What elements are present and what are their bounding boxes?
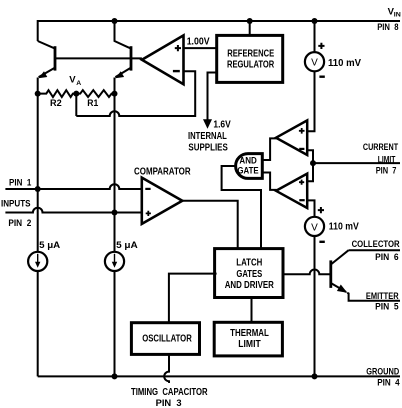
wire ground rail pin 4 <box>38 375 400 377</box>
label R1 <box>87 98 99 109</box>
node pin2 / right rail junction <box>112 210 118 216</box>
wire latch to output transistor base <box>283 270 331 275</box>
svg-text:PIN 3: PIN 3 <box>156 398 182 408</box>
svg-text:COLLECTOR: COLLECTOR <box>352 239 400 250</box>
label 5 uA right <box>116 240 138 251</box>
svg-text:R1: R1 <box>87 98 99 109</box>
svg-text:PIN 4: PIN 4 <box>377 378 400 389</box>
wire left rail upper <box>37 94 39 189</box>
current source I1 5uA <box>28 252 47 271</box>
arrow 1.6V supplies <box>203 119 212 129</box>
wire reference regulator feed from rail <box>249 21 251 35</box>
wire I1 to ground rail <box>37 271 39 377</box>
svg-text:INTERNAL: INTERNAL <box>188 131 227 142</box>
svg-text:110 mV: 110 mV <box>328 58 361 69</box>
label PIN 8 <box>377 22 398 33</box>
svg-text:V: V <box>311 222 318 233</box>
node top rail / Q2 collector junction <box>112 18 118 24</box>
label 110 mV lower <box>329 221 359 232</box>
svg-text:AND: AND <box>239 155 257 165</box>
label PIN 4 <box>377 378 400 389</box>
svg-text:LATCH: LATCH <box>236 258 262 269</box>
node R2 left junction <box>35 91 41 97</box>
svg-text:PIN 5: PIN 5 <box>375 302 399 313</box>
block thermal limit <box>214 322 282 356</box>
comparator U3 current limit lower <box>276 174 307 208</box>
wire V1 to current limit comparator + <box>307 71 314 132</box>
label PIN 1 <box>9 178 32 189</box>
label PIN 7 <box>376 165 397 176</box>
source V1 110mV <box>305 43 325 77</box>
comparator U2 current limit upper <box>276 120 307 155</box>
label PIN 3 <box>156 398 182 408</box>
block reference regulator <box>217 35 283 82</box>
node pin1 / left rail junction <box>35 186 41 192</box>
wire Q2 emitter to R1 node <box>114 78 116 94</box>
wire lower comparator - to V2 <box>307 200 314 217</box>
wire VA to feedback rail <box>75 94 77 116</box>
node ground / V2 junction <box>312 373 318 379</box>
resistor R1 <box>76 90 114 97</box>
node top rail / reference regulator junction <box>247 18 253 24</box>
label GROUND <box>366 367 399 378</box>
wire emitter pin 5 <box>347 293 400 301</box>
svg-text:REFERENCE: REFERENCE <box>227 48 274 59</box>
svg-text:COMPARATOR: COMPARATOR <box>134 166 191 177</box>
node pin7 junction <box>310 160 316 166</box>
svg-text:1.6V: 1.6V <box>213 119 231 130</box>
svg-text:REGULATOR: REGULATOR <box>227 59 275 70</box>
wire 1.6V internal supplies <box>208 73 217 121</box>
wire input pin 1 <box>5 184 141 189</box>
wire latch to oscillator <box>169 274 217 323</box>
label VIN <box>388 6 401 18</box>
wire oscillator timing capacitor <box>164 354 169 383</box>
svg-text:1.00V: 1.00V <box>187 37 210 48</box>
block latch gates and driver <box>215 249 283 298</box>
svg-text:IN: IN <box>394 12 401 19</box>
svg-text:PIN 6: PIN 6 <box>375 252 399 263</box>
svg-text:R2: R2 <box>50 98 62 109</box>
label TIMING CAPACITOR <box>131 387 208 398</box>
svg-text:PIN 7: PIN 7 <box>376 165 397 176</box>
wire Q1 emitter to R2 node <box>37 78 39 94</box>
source V2 110mV <box>305 207 325 242</box>
label VA <box>69 74 81 87</box>
svg-text:INPUTS: INPUTS <box>1 198 31 209</box>
wire rail to V1 <box>314 21 316 53</box>
label COLLECTOR <box>352 239 400 250</box>
svg-text:PIN 2: PIN 2 <box>8 218 31 229</box>
wire feedback rail to error amp inverting input <box>76 71 195 116</box>
svg-text:CURRENT: CURRENT <box>363 142 398 153</box>
transistor Q1 <box>38 41 55 78</box>
label COMPARATOR <box>134 166 191 177</box>
svg-text:EMITTER: EMITTER <box>366 291 399 302</box>
label SUPPLIES <box>188 142 228 153</box>
resistor R2 <box>38 90 77 97</box>
label 1.00V <box>187 37 210 48</box>
svg-text:5 μA: 5 μA <box>39 240 60 251</box>
label INTERNAL <box>188 131 227 142</box>
svg-text:AND DRIVER: AND DRIVER <box>225 280 275 291</box>
transistor Q2 <box>115 21 132 78</box>
wire latch to thermal limit <box>251 298 253 323</box>
wire current limit pin7 tee <box>307 150 313 181</box>
transistor Q3 output <box>331 250 349 293</box>
wire AND gate output to latch <box>222 166 261 249</box>
wire upper comparator output to AND gate <box>262 138 276 160</box>
comparator U4 main <box>142 178 183 224</box>
wire collector pin 6 <box>349 249 400 251</box>
label PIN 5 <box>375 302 399 313</box>
wire Q1 Q2 common base to error amp output <box>55 57 142 59</box>
svg-text:THERMAL: THERMAL <box>230 328 269 339</box>
label 5 uA left <box>39 240 60 251</box>
label 1.6V <box>213 119 231 130</box>
block oscillator <box>131 323 199 355</box>
wire V+ top rail <box>38 21 400 41</box>
wire input pin 2 <box>5 208 141 213</box>
label LIMIT <box>378 154 396 165</box>
node R1 right junction <box>112 91 118 97</box>
current source I2 5uA <box>105 252 124 271</box>
svg-text:GROUND: GROUND <box>366 367 399 378</box>
op-amp U1 error amplifier <box>142 35 184 84</box>
svg-text:PIN 8: PIN 8 <box>377 22 398 33</box>
svg-text:LIMIT: LIMIT <box>378 154 396 165</box>
svg-text:5 μA: 5 μA <box>116 240 138 251</box>
svg-text:GATES: GATES <box>236 269 262 280</box>
wire I2 to ground rail <box>114 271 116 377</box>
gate AND <box>236 154 263 179</box>
wire current limit pin 7 <box>313 162 400 164</box>
wire V2 to ground rail <box>314 235 316 376</box>
wire error amp + input to reference regulator <box>184 47 217 49</box>
svg-text:PIN 1: PIN 1 <box>9 178 32 189</box>
wire right rail to current source I2 <box>114 213 116 253</box>
wire right rail R1 to pin2 <box>114 94 116 213</box>
svg-text:110 mV: 110 mV <box>329 221 359 232</box>
node VA junction <box>73 91 79 97</box>
svg-text:TIMING CAPACITOR: TIMING CAPACITOR <box>131 387 208 398</box>
label 110 mV upper <box>328 58 361 69</box>
wire lower comparator output to AND gate <box>262 173 276 190</box>
svg-text:GATE: GATE <box>237 165 258 175</box>
wire comparator output to latch <box>182 201 237 249</box>
label R2 <box>50 98 62 109</box>
svg-text:LIMIT: LIMIT <box>238 339 260 350</box>
svg-text:V: V <box>311 58 318 69</box>
svg-text:A: A <box>76 80 81 87</box>
label CURRENT <box>363 142 398 153</box>
node top rail / current limit sense junction <box>312 18 318 24</box>
svg-text:OSCILLATOR: OSCILLATOR <box>142 334 192 345</box>
label PIN 6 <box>375 252 399 263</box>
wire left rail to current source I1 <box>37 189 39 252</box>
label PIN 2 <box>8 218 31 229</box>
label INPUTS <box>1 198 31 209</box>
label EMITTER <box>366 291 399 302</box>
node ground / I2 junction <box>112 373 118 379</box>
svg-text:SUPPLIES: SUPPLIES <box>188 142 228 153</box>
